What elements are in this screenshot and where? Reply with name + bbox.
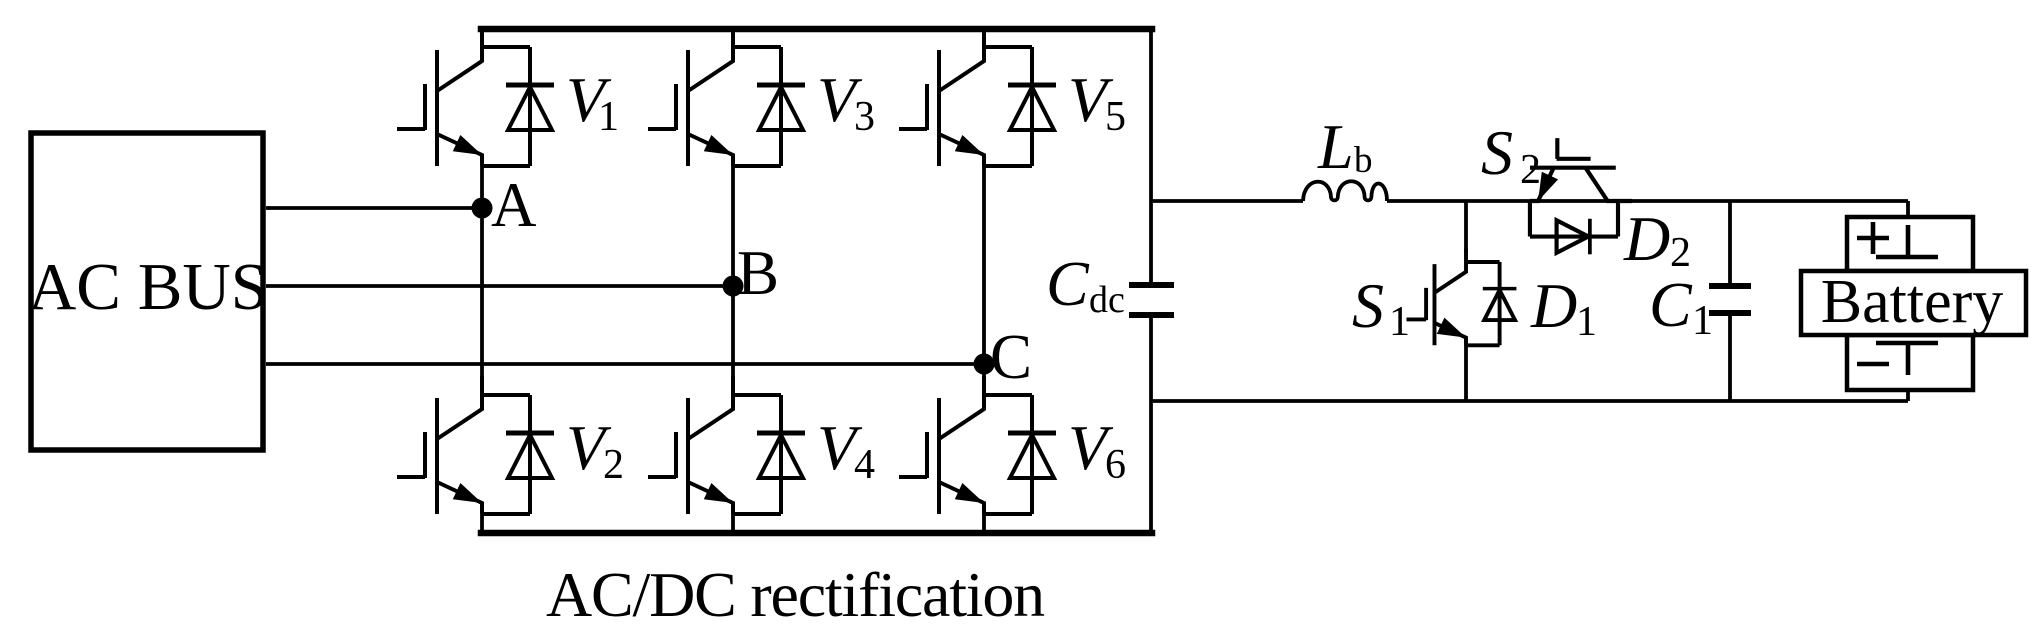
svg-text:1: 1	[1576, 299, 1597, 345]
svg-text:Battery: Battery	[1821, 268, 2004, 336]
svg-text:A: A	[491, 170, 537, 240]
svg-text:3: 3	[854, 94, 875, 140]
svg-text:S: S	[1481, 117, 1513, 188]
svg-text:2: 2	[603, 442, 624, 488]
svg-text:AC BUS: AC BUS	[28, 250, 268, 324]
svg-text:5: 5	[1105, 94, 1126, 140]
svg-text:dc: dc	[1089, 279, 1125, 321]
svg-text:AC/DC rectification: AC/DC rectification	[546, 559, 1045, 630]
svg-text:1: 1	[1692, 298, 1713, 344]
svg-text:D: D	[1623, 203, 1670, 274]
svg-text:1: 1	[598, 94, 619, 140]
svg-text:6: 6	[1105, 442, 1126, 488]
svg-text:2: 2	[1520, 147, 1541, 193]
svg-text:D: D	[1530, 270, 1577, 341]
svg-text:1: 1	[1389, 299, 1410, 345]
svg-text:S: S	[1352, 270, 1384, 341]
svg-text:4: 4	[854, 442, 875, 488]
svg-text:L: L	[1317, 111, 1354, 182]
svg-text:B: B	[737, 238, 779, 308]
svg-text:b: b	[1354, 140, 1373, 181]
svg-text:C: C	[1046, 248, 1090, 319]
svg-text:C: C	[990, 322, 1032, 392]
svg-text:C: C	[1649, 269, 1693, 340]
